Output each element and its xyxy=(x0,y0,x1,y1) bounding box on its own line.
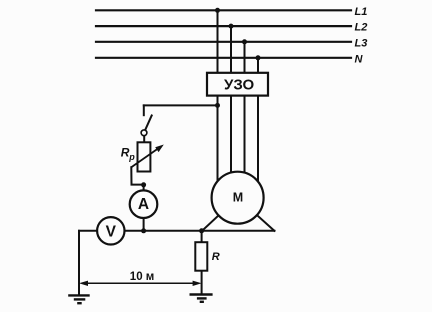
svg-text:M: M xyxy=(233,191,243,205)
svg-text:L3: L3 xyxy=(355,38,368,50)
svg-text:L2: L2 xyxy=(355,22,368,34)
svg-text:p: p xyxy=(128,152,135,162)
svg-text:R: R xyxy=(212,251,220,263)
svg-text:N: N xyxy=(355,54,364,66)
svg-text:УЗО: УЗО xyxy=(224,77,255,94)
svg-text:A: A xyxy=(138,196,149,213)
svg-text:V: V xyxy=(106,224,117,241)
svg-text:10 м: 10 м xyxy=(130,271,155,283)
svg-text:L1: L1 xyxy=(355,6,368,18)
